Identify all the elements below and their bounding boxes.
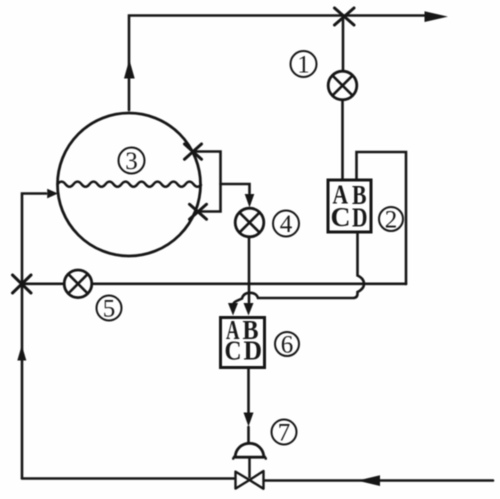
svg-text:1: 1 — [297, 52, 310, 79]
svg-text:4: 4 — [280, 211, 293, 238]
svg-text:D: D — [352, 203, 368, 233]
svg-text:C: C — [225, 336, 242, 366]
svg-text:3: 3 — [125, 148, 138, 175]
svg-text:2: 2 — [385, 207, 398, 234]
svg-text:D: D — [244, 336, 263, 366]
svg-text:6: 6 — [281, 332, 294, 359]
svg-text:7: 7 — [278, 420, 291, 447]
svg-text:C: C — [331, 202, 351, 232]
svg-text:5: 5 — [103, 296, 116, 323]
